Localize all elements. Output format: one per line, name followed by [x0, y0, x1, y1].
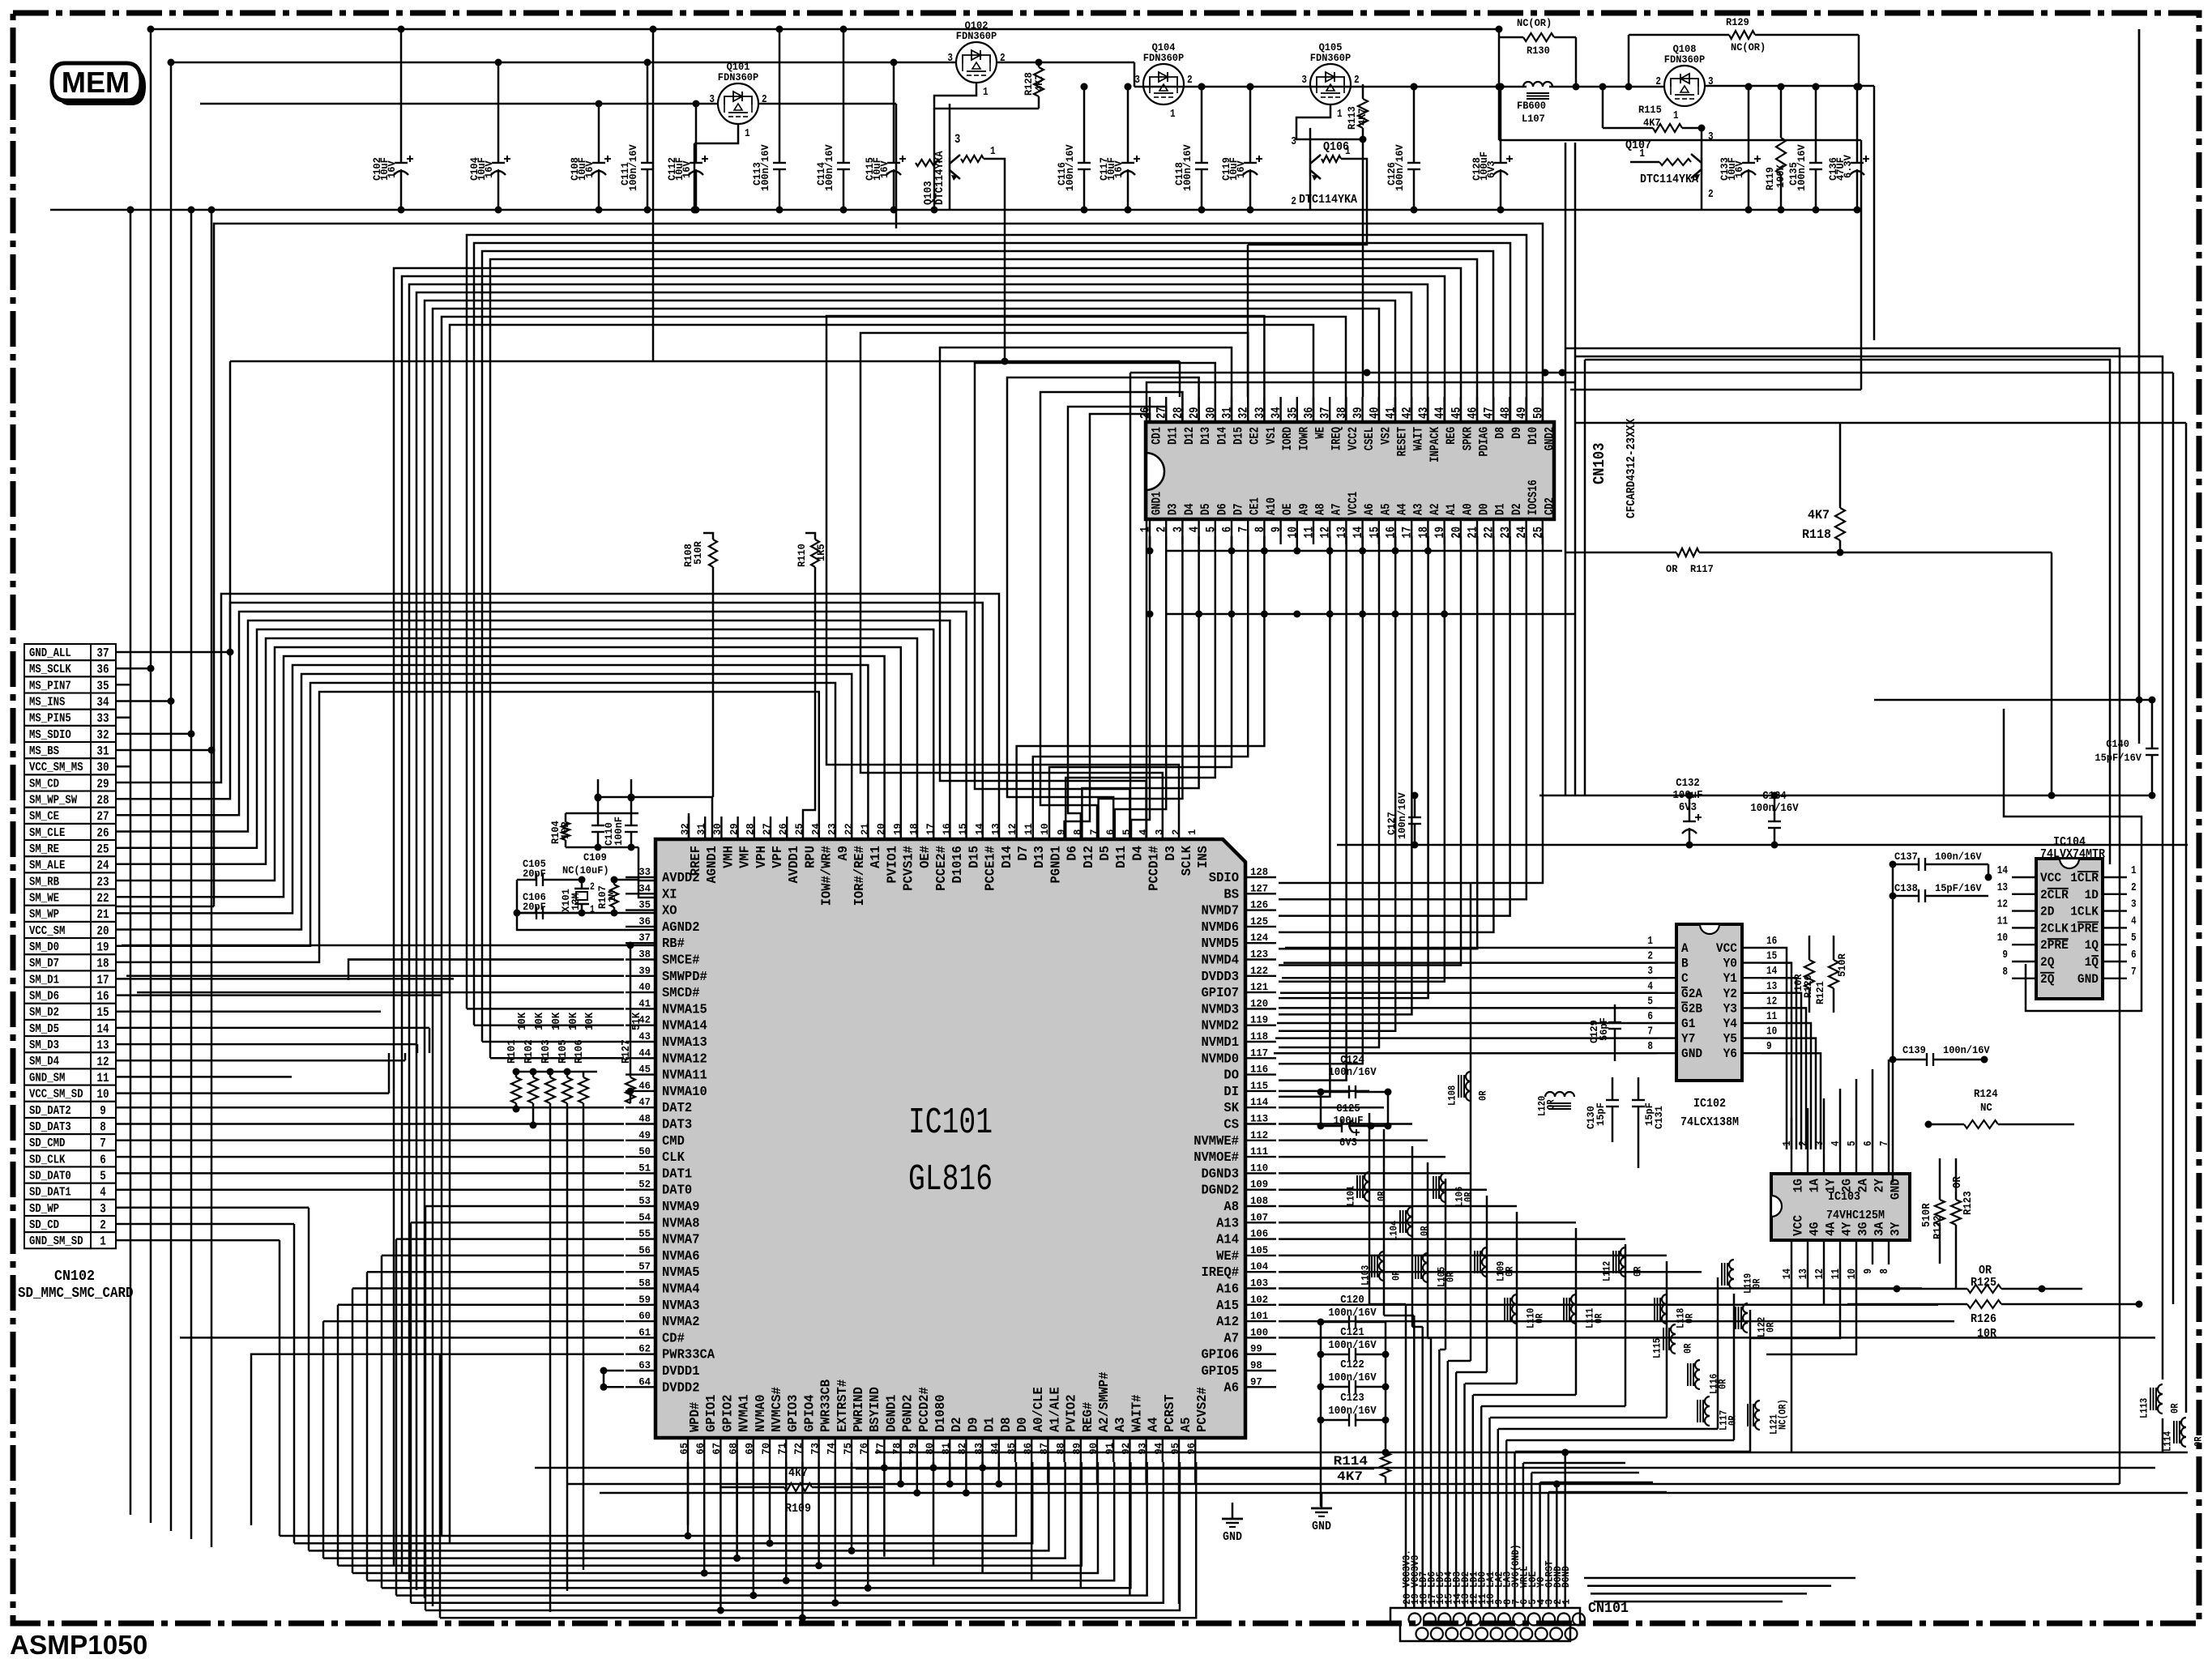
svg-text:PGND1: PGND1 — [1048, 846, 1064, 884]
IC101 pin 68 NVMA1 — [736, 1438, 737, 1462]
svg-text:2: 2 — [1000, 52, 1006, 65]
IC101 pin 43 NVMA13 — [626, 1041, 655, 1043]
svg-text:3: 3 — [1708, 75, 1714, 88]
svg-text:WAIT#: WAIT# — [1129, 1395, 1145, 1433]
IC101 pin 106 A14 — [1245, 1238, 1276, 1239]
IC101 pin 66 GPIO1 — [703, 1438, 705, 1462]
svg-text:NVMA5: NVMA5 — [662, 1265, 700, 1281]
svg-text:GND: GND — [1681, 1047, 1702, 1061]
svg-text:16V: 16V — [386, 160, 398, 178]
svg-text:SM_WP: SM_WP — [29, 909, 59, 922]
svg-text:INPACK: INPACK — [1428, 426, 1442, 462]
svg-text:NVMA7: NVMA7 — [662, 1233, 700, 1248]
svg-text:510R: 510R — [1836, 953, 1848, 977]
IC101 pin 60 NVMA2 — [626, 1320, 655, 1322]
IC101 pin 126 NVMD7 — [1245, 909, 1276, 910]
svg-text:PVIO1: PVIO1 — [885, 846, 900, 884]
svg-text:27: 27 — [96, 809, 109, 824]
svg-text:CSEL: CSEL — [1362, 427, 1377, 450]
svg-text:1PRE: 1PRE — [2070, 921, 2099, 936]
IC104 pin 6 1Q — [2103, 961, 2127, 962]
svg-text:NC(OR): NC(OR) — [1731, 41, 1766, 53]
CN102 pin 24 SM_ALE — [24, 856, 91, 872]
IC103 pin 7 GND — [1888, 1149, 1890, 1174]
IC101 pin 76 BSYIND — [867, 1438, 869, 1462]
top power rails — [151, 28, 1499, 31]
svg-text:128: 128 — [1250, 866, 1268, 878]
IC101 pin 55 NVMA7 — [626, 1238, 655, 1239]
IC104 pin 5 1Q — [2103, 944, 2127, 945]
resistor R129 NC(0R) — [1729, 31, 1755, 39]
svg-text:D13: D13 — [1032, 846, 1048, 868]
svg-text:12: 12 — [1997, 898, 2008, 911]
svg-text:PCVS1#: PCVS1# — [902, 846, 917, 891]
IC101 pin 116 DO — [1245, 1073, 1276, 1075]
svg-text:D9: D9 — [1510, 427, 1524, 439]
svg-text:51K: 51K — [630, 1012, 643, 1030]
svg-text:100n/16V: 100n/16V — [1064, 144, 1076, 191]
svg-text:0R: 0R — [1752, 1278, 1763, 1289]
svg-text:VCC: VCC — [1791, 1215, 1806, 1236]
capacitor C128 — [1500, 87, 1502, 163]
IC101 pin 85 D0 — [1014, 1438, 1016, 1462]
svg-text:3: 3 — [1134, 74, 1140, 87]
IC102 pin 14 Y1 — [1742, 977, 1761, 979]
wire CN102 SD rows direct to IC101 — [116, 1107, 624, 1109]
svg-text:11: 11 — [96, 1071, 109, 1085]
IC101 pin 33 AVDD2 — [626, 876, 655, 878]
CN103 pin 16 A4 — [1394, 519, 1396, 544]
svg-text:37: 37 — [638, 932, 651, 944]
CN102 pin 7 SD_CMD — [24, 1134, 91, 1150]
svg-text:15pF/16V: 15pF/16V — [2095, 752, 2142, 764]
CN103 pin 14 A6 — [1361, 519, 1363, 544]
svg-text:15: 15 — [957, 823, 969, 835]
svg-text:A: A — [1681, 941, 1689, 956]
IC104 pin 9 2Q — [2012, 961, 2036, 962]
svg-text:2: 2 — [1291, 195, 1296, 208]
wire SMCE SMWPD SMCD lines — [348, 958, 624, 961]
CN102 pin 25 SM_RE — [24, 840, 91, 856]
svg-text:D8: D8 — [999, 1417, 1014, 1432]
svg-text:20: 20 — [96, 923, 109, 938]
capacitor C133 — [1748, 87, 1750, 163]
CN102 pin 16 SM_D6 — [24, 987, 91, 1004]
svg-text:CD2: CD2 — [1542, 497, 1557, 515]
svg-text:NVMA4: NVMA4 — [662, 1282, 700, 1298]
svg-text:3: 3 — [1154, 829, 1166, 835]
Q101 drain drop — [895, 104, 898, 228]
IC103 pin 12 4A — [1823, 1240, 1825, 1264]
IC104 pin 3 1CLK — [2103, 910, 2127, 911]
svg-text:L107: L107 — [1522, 113, 1545, 125]
CN102 pin 17 SM_D1 — [24, 970, 91, 987]
IC103 pin 9 3A — [1872, 1240, 1873, 1264]
svg-text:25: 25 — [96, 842, 109, 857]
svg-text:CD1: CD1 — [1150, 427, 1164, 445]
CN102 pin 8 SD_DAT3 — [24, 1118, 91, 1134]
svg-text:C131: C131 — [1653, 1106, 1665, 1129]
CN102 pin 36 MS_SCLK — [24, 660, 91, 676]
IC101 pin 59 NVMA3 — [626, 1304, 655, 1306]
svg-text:ASMP1050: ASMP1050 — [10, 1631, 147, 1659]
capacitor C126 — [1413, 87, 1416, 163]
IC101 pin 101 A12 — [1245, 1320, 1276, 1322]
CN103 pin 18 A2 — [1427, 519, 1428, 544]
svg-text:MS_BS: MS_BS — [29, 745, 59, 758]
svg-text:MS_SDIO: MS_SDIO — [29, 729, 71, 742]
svg-text:NVMA13: NVMA13 — [662, 1035, 707, 1051]
svg-text:C125: C125 — [1336, 1102, 1360, 1115]
svg-text:12M: 12M — [570, 893, 582, 910]
svg-text:NVMA15: NVMA15 — [662, 1002, 707, 1017]
svg-text:SD_CLK: SD_CLK — [29, 1153, 66, 1166]
CN102 pin 15 SM_D2 — [24, 1004, 91, 1020]
svg-text:101: 101 — [1250, 1310, 1268, 1322]
svg-text:NVMD0: NVMD0 — [1202, 1051, 1240, 1067]
svg-text:4K7: 4K7 — [1808, 508, 1830, 522]
svg-text:510R: 510R — [692, 541, 704, 565]
svg-text:D14: D14 — [1000, 846, 1015, 868]
svg-text:0R: 0R — [1445, 1272, 1457, 1282]
svg-text:MEM: MEM — [62, 66, 130, 99]
svg-text:DTC114YKA: DTC114YKA — [1640, 173, 1698, 186]
svg-text:R123: R123 — [1962, 1191, 1975, 1215]
inductor L110 0R — [1512, 1294, 1517, 1304]
svg-text:74VHC125M: 74VHC125M — [1826, 1209, 1885, 1222]
svg-text:IC104: IC104 — [2053, 836, 2086, 849]
IC101 pin 127 BS — [1245, 893, 1276, 894]
svg-text:76: 76 — [858, 1443, 870, 1455]
IC101 pin 119 NVMD2 — [1245, 1024, 1276, 1026]
CN102 pin 34 MS_INS — [24, 693, 91, 710]
IC101 pin 67 GPIO2 — [720, 1438, 721, 1462]
svg-text:D15: D15 — [967, 846, 982, 868]
svg-text:NVMOE#: NVMOE# — [1194, 1150, 1239, 1166]
svg-text:AGND2: AGND2 — [662, 920, 700, 936]
IC101 pin 37 RB# — [626, 942, 655, 944]
wire IC101 bottom mid pins to rails — [687, 1462, 690, 1536]
svg-text:20: 20 — [875, 823, 887, 835]
CN103 pin 8 A10 — [1263, 519, 1265, 544]
svg-text:D2: D2 — [1510, 503, 1524, 515]
svg-text:9: 9 — [2002, 949, 2008, 962]
IC101 pin 92 WAIT# — [1129, 1438, 1130, 1462]
svg-text:4: 4 — [1647, 980, 1653, 993]
CN103 pin 21 D0 — [1476, 519, 1478, 544]
CN102 pin 18 SM_D7 — [24, 954, 91, 970]
svg-text:D12: D12 — [1182, 427, 1197, 445]
svg-text:D1080: D1080 — [933, 1395, 949, 1433]
svg-text:3: 3 — [2131, 898, 2137, 911]
svg-text:R114: R114 — [1334, 1454, 1369, 1469]
svg-text:R101: R101 — [506, 1039, 519, 1064]
svg-text:D9: D9 — [966, 1417, 981, 1432]
IC101 pin 87 A1/ALE — [1047, 1438, 1048, 1462]
svg-text:GPIO6: GPIO6 — [1202, 1348, 1240, 1363]
svg-text:Y7: Y7 — [1681, 1032, 1695, 1047]
svg-text:D1: D1 — [983, 1417, 998, 1432]
svg-text:OE: OE — [1280, 503, 1295, 515]
wire verticals right of CN103 — [1565, 143, 1567, 795]
inductor L121 NC(OR) — [1755, 1401, 1760, 1410]
svg-text:15: 15 — [1766, 950, 1777, 963]
svg-text:DGND1: DGND1 — [884, 1395, 899, 1433]
IC101 pin 102 A15 — [1245, 1304, 1276, 1306]
svg-text:107: 107 — [1250, 1211, 1268, 1223]
svg-text:2: 2 — [1155, 527, 1169, 532]
FB600 L107 ferrite bead — [1523, 82, 1533, 87]
svg-text:118: 118 — [1250, 1030, 1268, 1043]
svg-text:2: 2 — [590, 881, 595, 893]
svg-text:FB600: FB600 — [1517, 100, 1546, 112]
svg-text:SM_WE: SM_WE — [29, 893, 59, 906]
svg-text:NVMA12: NVMA12 — [662, 1051, 707, 1067]
svg-text:VCC1: VCC1 — [1346, 492, 1360, 515]
svg-text:4K7: 4K7 — [1337, 1469, 1363, 1484]
wire CN103 bottom staircase to IC101 right — [1279, 536, 1543, 883]
svg-text:D5: D5 — [1098, 846, 1113, 861]
CN102 pin 27 SM_CE — [24, 808, 91, 824]
svg-text:SM_D4: SM_D4 — [29, 1055, 59, 1068]
svg-text:69: 69 — [744, 1443, 756, 1455]
svg-text:4: 4 — [100, 1185, 106, 1200]
svg-text:16V: 16V — [483, 160, 495, 178]
svg-text:31: 31 — [96, 744, 109, 759]
wire long horizontal bundle — [214, 224, 1543, 906]
svg-text:GND: GND — [1312, 1520, 1331, 1533]
svg-text:NC(OR): NC(OR) — [1778, 1399, 1789, 1430]
svg-text:6V3: 6V3 — [1485, 160, 1497, 178]
svg-text:D1016: D1016 — [950, 846, 966, 884]
svg-text:71: 71 — [776, 1443, 788, 1455]
svg-text:VS1: VS1 — [1264, 427, 1279, 445]
inductor L112 0R — [1621, 1247, 1625, 1257]
svg-text:11: 11 — [1302, 527, 1317, 539]
IC101 pin 84 D8 — [998, 1438, 1000, 1462]
svg-text:SD_DAT0: SD_DAT0 — [29, 1170, 71, 1183]
CN103 pin 13 VCC1 — [1345, 519, 1347, 544]
svg-text:R130: R130 — [1527, 45, 1550, 57]
svg-text:R102: R102 — [523, 1039, 536, 1064]
svg-text:66: 66 — [694, 1443, 707, 1455]
svg-text:FDN360P: FDN360P — [956, 30, 997, 42]
svg-text:54: 54 — [638, 1211, 651, 1223]
IC104 pin 12 2D — [2012, 910, 2036, 911]
svg-text:A7: A7 — [1330, 503, 1344, 515]
svg-text:4K7: 4K7 — [1356, 108, 1369, 126]
svg-text:PDIAG: PDIAG — [1477, 427, 1492, 457]
svg-text:0R: 0R — [1463, 1192, 1475, 1202]
MEM page label — [57, 68, 146, 105]
IC102 pin 7 Y7 — [1657, 1037, 1676, 1038]
wire CN103 staples — [826, 316, 1264, 839]
svg-text:D10: D10 — [1526, 427, 1540, 445]
capacitor C136 — [1856, 87, 1859, 163]
CN102 pin 23 SM_RB — [24, 872, 91, 889]
IC101 pin 53 NVMA9 — [626, 1205, 655, 1207]
svg-text:IOR#/RE#: IOR#/RE# — [852, 846, 868, 906]
svg-text:13: 13 — [1997, 881, 2008, 894]
svg-text:6: 6 — [1220, 527, 1235, 532]
svg-text:59: 59 — [638, 1294, 651, 1306]
IC101 pin 122 DVDD3 — [1245, 975, 1276, 977]
svg-text:NVMD1: NVMD1 — [1202, 1035, 1240, 1051]
svg-text:9: 9 — [1862, 1269, 1875, 1274]
IC101 pin 82 D9 — [965, 1438, 967, 1462]
svg-text:1: 1 — [1337, 108, 1343, 121]
svg-text:29: 29 — [96, 777, 109, 791]
svg-text:A1/ALE: A1/ALE — [1048, 1387, 1063, 1432]
svg-text:61: 61 — [638, 1326, 651, 1338]
IC104 74LVX74MTR — [2036, 859, 2103, 999]
svg-text:SDIO: SDIO — [1209, 871, 1239, 886]
svg-text:127: 127 — [1250, 882, 1268, 894]
svg-text:A10: A10 — [1264, 497, 1279, 515]
svg-text:NVMA0: NVMA0 — [754, 1395, 769, 1433]
svg-text:6: 6 — [2131, 949, 2137, 962]
svg-text:22: 22 — [843, 823, 855, 835]
svg-text:GND2: GND2 — [1542, 427, 1557, 450]
CN102 pin 13 SM_D3 — [24, 1036, 91, 1052]
svg-text:117: 117 — [1250, 1047, 1268, 1059]
capacitor C110 100nF — [597, 798, 600, 825]
svg-text:1: 1 — [990, 145, 996, 158]
svg-text:100n/16V: 100n/16V — [1396, 792, 1408, 839]
IC101 pin 42 NVMA14 — [626, 1024, 655, 1026]
svg-text:11: 11 — [1997, 915, 2008, 927]
svg-text:2PRE: 2PRE — [2040, 938, 2069, 953]
inductor L118 0R — [1662, 1294, 1667, 1304]
svg-text:112: 112 — [1250, 1129, 1268, 1141]
svg-text:10K: 10K — [567, 1012, 580, 1030]
svg-text:A16: A16 — [1216, 1282, 1239, 1298]
svg-text:A12: A12 — [1216, 1315, 1239, 1330]
svg-text:2: 2 — [2131, 881, 2137, 894]
svg-text:39: 39 — [638, 965, 651, 977]
svg-text:DAT1: DAT1 — [662, 1166, 692, 1182]
CN102 pin 29 SM_CD — [24, 774, 91, 791]
svg-text:MS_SCLK: MS_SCLK — [29, 663, 71, 676]
wire CN103-right loop — [1499, 139, 1861, 142]
inductor L119 0R — [1729, 1260, 1734, 1269]
svg-text:3Y: 3Y — [1889, 1222, 1903, 1236]
svg-text:EXTRST#: EXTRST# — [835, 1379, 851, 1432]
svg-text:1Q: 1Q — [2085, 955, 2099, 970]
svg-text:OR: OR — [1951, 1176, 1964, 1188]
svg-text:SM_CE: SM_CE — [29, 811, 59, 824]
svg-text:A15: A15 — [1216, 1298, 1239, 1314]
svg-text:1G: 1G — [1791, 1179, 1806, 1192]
IC101 pin 46 NVMA10 — [626, 1090, 655, 1092]
svg-text:75: 75 — [842, 1443, 854, 1455]
svg-text:4Y: 4Y — [1840, 1222, 1855, 1236]
svg-text:100n/16V: 100n/16V — [1328, 1307, 1377, 1320]
resistor R128 4K7 — [1038, 62, 1040, 67]
svg-text:4k7: 4k7 — [788, 1467, 808, 1480]
svg-text:122: 122 — [1250, 965, 1268, 977]
svg-text:PCVS2#: PCVS2# — [1195, 1387, 1211, 1432]
IC102 pin 10 Y5 — [1742, 1037, 1761, 1038]
CN102 pin 12 SM_D4 — [24, 1052, 91, 1068]
svg-text:56: 56 — [638, 1244, 651, 1256]
svg-text:2Q: 2Q — [2040, 972, 2054, 987]
svg-text:WAIT: WAIT — [1411, 427, 1426, 450]
IC101 pin 81 D2 — [949, 1438, 950, 1462]
svg-text:PWRIND: PWRIND — [852, 1387, 867, 1432]
svg-text:12: 12 — [96, 1055, 109, 1069]
IC101 pin 100 A7 — [1245, 1337, 1276, 1338]
svg-text:NVMD4: NVMD4 — [1202, 953, 1240, 969]
IC103 pin 3 1Y — [1823, 1149, 1825, 1174]
svg-text:A6: A6 — [1362, 503, 1377, 515]
svg-text:R117: R117 — [1690, 563, 1714, 575]
svg-text:NVMA1: NVMA1 — [737, 1395, 753, 1433]
IC101 pin 36 AGND2 — [626, 926, 655, 927]
capacitor C104 — [497, 62, 500, 163]
svg-text:40: 40 — [638, 981, 651, 993]
svg-text:D1: D1 — [1493, 503, 1508, 515]
svg-text:113: 113 — [1250, 1113, 1268, 1125]
svg-text:NVMA6: NVMA6 — [662, 1249, 700, 1264]
svg-text:1: 1 — [1186, 829, 1198, 835]
wire CN103 left pins elbows to IC101 top — [1131, 536, 1150, 839]
svg-text:Q107: Q107 — [1625, 139, 1651, 152]
svg-text:100n/16V: 100n/16V — [759, 144, 771, 191]
svg-text:21: 21 — [859, 823, 871, 835]
svg-text:C109: C109 — [583, 851, 607, 863]
IC101 pin 91 A3 — [1112, 1438, 1114, 1462]
svg-text:100n/16V: 100n/16V — [1796, 144, 1808, 191]
IC101 pin 112 NVMWE# — [1245, 1140, 1276, 1141]
svg-text:GPIO3: GPIO3 — [786, 1395, 801, 1433]
IC102 pin 13 Y2 — [1742, 992, 1761, 994]
svg-text:NVMA2: NVMA2 — [662, 1315, 700, 1330]
transistor Q105 FDN360P — [1310, 64, 1351, 104]
svg-text:CD#: CD# — [662, 1331, 685, 1346]
svg-text:Y0: Y0 — [1723, 957, 1737, 971]
svg-text:2: 2 — [1187, 74, 1193, 87]
svg-text:NC(OR): NC(OR) — [1517, 17, 1552, 29]
svg-text:120: 120 — [1250, 997, 1268, 1009]
IC103 pin 6 2Y — [1872, 1149, 1873, 1174]
svg-text:D4: D4 — [1182, 503, 1197, 515]
connector CN103 CFCARD4312-23XXX — [1146, 422, 1554, 519]
svg-text:A2/SMWP#: A2/SMWP# — [1097, 1372, 1112, 1432]
svg-text:34: 34 — [638, 882, 651, 894]
svg-text:C132: C132 — [1676, 777, 1700, 790]
svg-text:119: 119 — [1250, 1014, 1268, 1026]
svg-text:VCC2: VCC2 — [1346, 427, 1360, 450]
svg-text:4: 4 — [2131, 915, 2137, 927]
svg-text:114: 114 — [1250, 1096, 1268, 1108]
svg-text:22: 22 — [96, 891, 109, 906]
svg-text:CE2: CE2 — [1248, 427, 1262, 445]
IC101 pin 111 NVMOE# — [1245, 1156, 1276, 1158]
svg-text:WE: WE — [1313, 427, 1328, 439]
svg-text:33: 33 — [638, 866, 651, 878]
svg-text:NVMA8: NVMA8 — [662, 1216, 700, 1231]
svg-text:1M: 1M — [606, 891, 618, 902]
right rails — [1539, 795, 2152, 797]
svg-text:SMWPD#: SMWPD# — [662, 970, 707, 985]
svg-text:104: 104 — [1250, 1260, 1268, 1273]
svg-text:62: 62 — [638, 1343, 651, 1355]
svg-text:DVDD3: DVDD3 — [1202, 970, 1240, 985]
svg-text:41: 41 — [638, 997, 651, 1009]
inductor L117 0R — [1705, 1396, 1710, 1406]
svg-text:10: 10 — [96, 1087, 109, 1102]
